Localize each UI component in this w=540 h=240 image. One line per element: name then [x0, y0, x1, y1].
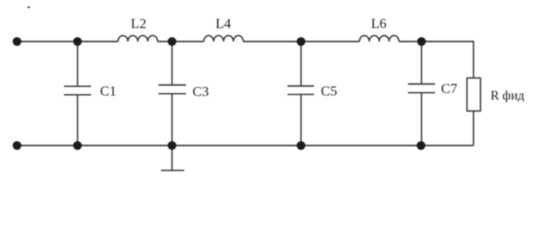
node junction top C7 — [417, 37, 426, 46]
svg-text:R фид: R фид — [491, 87, 525, 102]
svg-text:L6: L6 — [371, 17, 387, 32]
node junction bottom C3 — [168, 141, 177, 150]
svg-text:C5: C5 — [321, 85, 337, 100]
svg-text:C1: C1 — [100, 85, 116, 100]
inductor L4 — [204, 36, 244, 42]
resistor R load box — [467, 78, 481, 111]
node junction top C5 — [297, 37, 306, 46]
ground — [161, 146, 184, 171]
capacitor C7 — [408, 42, 435, 146]
inductor L2 — [118, 36, 158, 42]
node junction bottom C5 — [297, 141, 306, 150]
node input terminal bottom — [13, 141, 22, 150]
capacitor C1 — [64, 42, 91, 146]
svg-text:C3: C3 — [193, 85, 209, 100]
wire resistor bottom lead — [473, 111, 475, 146]
wire top rail from L6 to resistor corner — [399, 42, 474, 79]
wire top rail input segment — [17, 41, 118, 43]
capacitor C5 — [288, 42, 315, 146]
capacitor C3 — [159, 42, 187, 146]
inductor L6 — [359, 36, 399, 42]
svg-text:L2: L2 — [131, 17, 147, 32]
speck artifact — [27, 6, 30, 8]
node junction bottom C1 — [73, 141, 82, 150]
wire bottom rail — [17, 145, 474, 147]
svg-text:C7: C7 — [441, 82, 457, 97]
svg-text:L4: L4 — [216, 17, 232, 32]
node junction bottom C7 — [417, 141, 426, 150]
wire top rail between L4 and L6 — [243, 41, 359, 43]
node input terminal top — [13, 37, 22, 46]
node junction top C1 — [73, 37, 82, 46]
node junction top C3 — [168, 37, 177, 46]
wire top rail between L2 and L4 — [158, 41, 204, 43]
